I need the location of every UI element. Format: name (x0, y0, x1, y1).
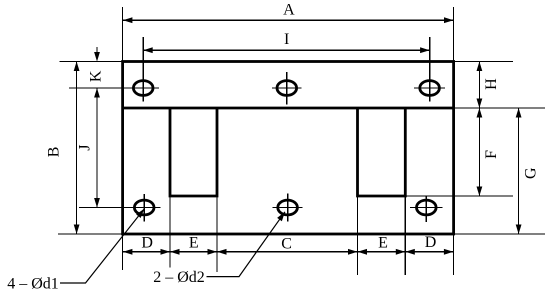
leader 4-Od1 (60, 209, 144, 283)
extension line bottom edge left (58, 233, 123, 235)
svg-text:B: B (45, 147, 62, 158)
hole top-center centerlines (272, 87, 302, 89)
svg-text:D: D (425, 234, 437, 251)
dimension G arrows (516, 108, 522, 118)
hole top-left (133, 81, 153, 96)
svg-text:E: E (378, 235, 388, 252)
svg-text:D: D (141, 235, 153, 252)
svg-text:4 – Ød1: 4 – Ød1 (7, 276, 59, 293)
flange bottom edge line (123, 107, 454, 110)
svg-text:J: J (77, 144, 94, 150)
right slot (358, 108, 406, 196)
label F (483, 150, 500, 159)
dimension B line (76, 62, 78, 235)
svg-text:H: H (483, 78, 500, 90)
hole bottom-center (278, 200, 298, 215)
dimension H line (478, 62, 480, 109)
svg-text:G: G (522, 167, 539, 179)
dimension F line (478, 108, 480, 196)
hole top-right centerlines (414, 87, 445, 89)
svg-text:K: K (88, 70, 105, 82)
label G (522, 167, 539, 179)
dimension G line (518, 108, 520, 234)
extension line below right edge (453, 234, 455, 275)
hole bottom-left (134, 200, 154, 215)
hole top-center (277, 81, 297, 96)
hole top-left centerlines (69, 87, 159, 89)
dimension A arrows (123, 17, 132, 23)
dimension H arrows (477, 62, 483, 72)
dimension A line (123, 19, 454, 21)
dimension I arrows (143, 47, 153, 53)
extension line A left (122, 7, 124, 62)
label J (77, 144, 94, 150)
dimension J line (96, 88, 98, 208)
bottom dimension line D E C E D (123, 251, 454, 253)
hole bottom-center centerlines (273, 207, 303, 209)
leader 2-Od2 (207, 212, 286, 277)
extension line bottom edge right (454, 233, 545, 235)
hole top-right (420, 81, 440, 96)
dimension I line (143, 49, 429, 51)
extension line below left edge (122, 234, 124, 270)
extension line below left slot right (216, 196, 218, 272)
part outline rectangle (123, 62, 454, 235)
hole bottom-left centerlines (79, 207, 161, 209)
dimension F arrows (477, 108, 483, 118)
hole bottom-right centerlines (410, 207, 443, 209)
svg-text:2 – Ød2: 2 – Ød2 (153, 269, 205, 286)
bottom dimension arrows (123, 249, 132, 255)
svg-text:A: A (283, 1, 295, 18)
extension line below right slot right (404, 196, 406, 275)
left slot (170, 108, 217, 196)
extension line flange bottom right (454, 107, 545, 109)
extension line top edge right (454, 61, 513, 63)
label B (45, 147, 62, 158)
svg-text:E: E (189, 235, 199, 252)
extension line slot bottom right (405, 195, 513, 197)
hole bottom-right (417, 200, 437, 215)
label K (88, 70, 105, 82)
svg-text:I: I (284, 31, 289, 48)
extension line top edge left (60, 61, 123, 63)
label H (483, 78, 500, 90)
svg-text:F: F (483, 150, 500, 159)
extension line A right (453, 7, 455, 62)
dimension K arrow (down, above top edge) (96, 47, 98, 53)
extension line below left slot left (169, 196, 171, 268)
svg-text:C: C (281, 236, 292, 253)
extension line below right slot left (357, 196, 359, 275)
dimension B arrows (74, 62, 80, 72)
dimension J arrows (94, 88, 100, 98)
